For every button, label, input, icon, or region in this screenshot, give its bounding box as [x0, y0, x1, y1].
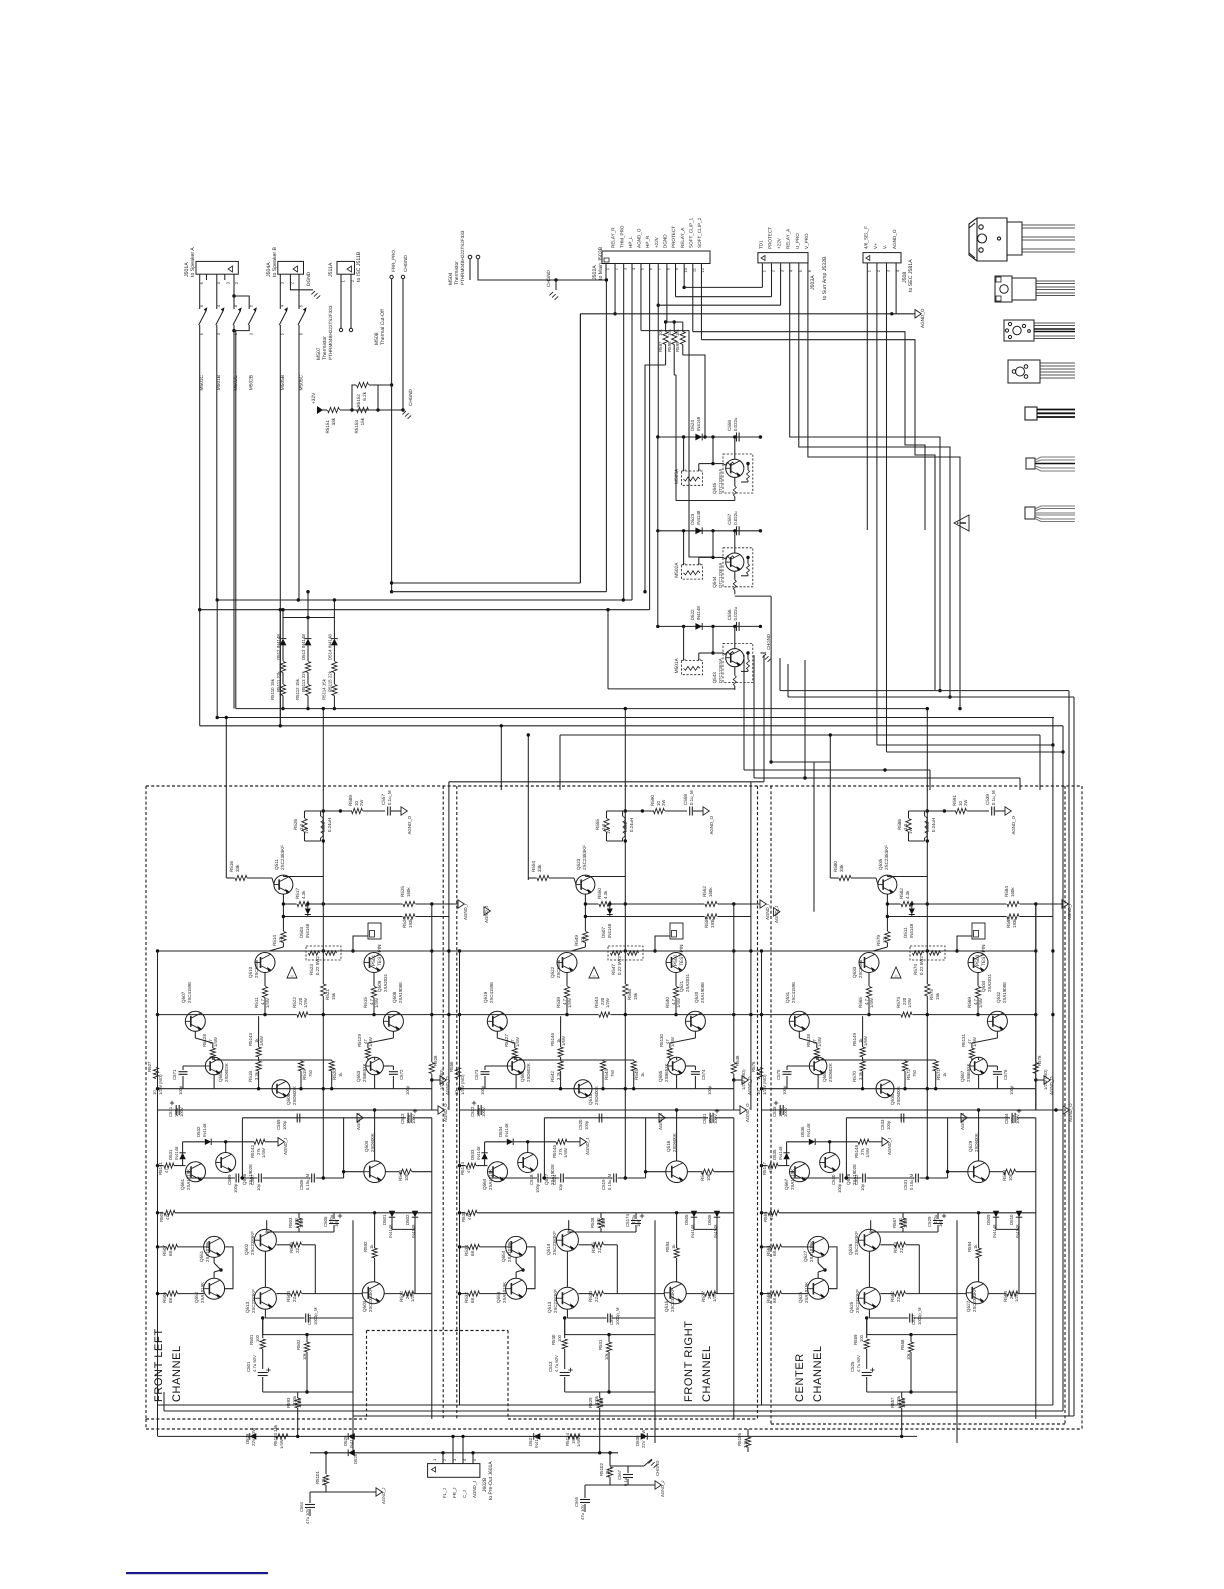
svg-text:C519: C519 [601, 1179, 606, 1190]
svg-text:FRONT RIGHT: FRONT RIGHT [683, 1320, 695, 1402]
svg-text:C505: C505 [323, 1216, 328, 1227]
svg-text:68: 68 [772, 1251, 777, 1256]
lower row wire [948, 1293, 966, 1295]
svg-text:AGND_J: AGND_J [283, 1138, 288, 1155]
diode D532 IN4148 [205, 1139, 211, 1145]
resistor R559 100 [864, 1339, 869, 1349]
svg-text:2SA2031: 2SA2031 [685, 973, 690, 992]
resistor R538 47k [460, 1212, 466, 1214]
package drawing TO-220 [995, 276, 1075, 302]
resistor R502 10k [304, 1342, 309, 1352]
internal resistor base-emitter [747, 557, 749, 563]
Q13 emitter chain [564, 1318, 566, 1338]
net arrow AGND_J mid [961, 1114, 967, 1122]
emitter wire down [584, 894, 586, 931]
svg-text:R514: R514 [272, 935, 277, 946]
capacitor C519 0.15u_M [613, 1174, 615, 1183]
svg-text:HP_R: HP_R [645, 235, 650, 248]
svg-text:AGND_J: AGND_J [472, 1481, 477, 1498]
left rail lower [157, 1247, 159, 1405]
svg-text:R578: R578 [1037, 1055, 1042, 1066]
resistor R542 3.3k [558, 1061, 563, 1071]
capacitor C564 47u 10V [305, 1504, 315, 1506]
resistor R562 22 [880, 1293, 894, 1295]
svg-text:M505A: M505A [674, 468, 680, 484]
svg-text:R5127: R5127 [504, 1034, 509, 1047]
resistor R506 68 [167, 1291, 178, 1296]
ground CHGND on M504 line [554, 278, 557, 281]
svg-text:IN4148: IN4148 [696, 606, 701, 621]
svg-text:1/4W: 1/4W [972, 1037, 977, 1047]
capacitor C501 4.7u 50V [258, 1372, 268, 1374]
svg-text:AGND_I: AGND_I [765, 904, 770, 920]
svg-text:Q516: Q516 [666, 1140, 671, 1152]
net arrow AGND_J bottom left [376, 1488, 382, 1496]
svg-text:R5103 15k: R5103 15k [273, 1424, 278, 1446]
diode row wires [694, 1228, 717, 1230]
bottom section line 2 [310, 1452, 618, 1454]
svg-text:Q564: Q564 [482, 1178, 487, 1190]
svg-text:100p: 100p [405, 1085, 410, 1095]
wire control rail M505A [658, 436, 761, 438]
svg-text:Q584: Q584 [520, 1070, 525, 1082]
svg-text:CENTER: CENTER [794, 1353, 806, 1402]
svg-text:CHANNEL: CHANNEL [171, 1345, 183, 1402]
svg-text:0.15u_M: 0.15u_M [909, 1173, 914, 1190]
svg-text:R5152: R5152 [356, 394, 361, 408]
svg-text:RELAY_A: RELAY_A [786, 228, 791, 249]
resistor R598 10k [672, 332, 677, 345]
input row wires [190, 1177, 235, 1179]
svg-text:AGND_J: AGND_J [660, 1480, 665, 1497]
svg-text:1/2W: 1/2W [303, 998, 308, 1008]
transistor Q527 2SC2383KF [966, 1282, 988, 1304]
capacitor C535 100u 100V [779, 1105, 781, 1115]
relay coil M502A [681, 565, 702, 579]
diode D513 IN4148 [307, 618, 309, 639]
net arrow AGND_J mid [357, 1114, 363, 1122]
svg-text:10: 10 [683, 267, 688, 272]
svg-text:3.3k: 3.3k [254, 1071, 259, 1080]
svg-text:0.15u_M: 0.15u_M [305, 1173, 310, 1190]
svg-text:R575: R575 [929, 989, 934, 1000]
svg-text:Q526: Q526 [848, 1243, 853, 1255]
svg-text:+32V: +32V [311, 392, 317, 404]
Q13 emitter chain [262, 1318, 264, 1338]
svg-text:193k: 193k [710, 918, 715, 928]
svg-text:V_PRO: V_PRO [804, 233, 809, 249]
resistor R539 4.7 1/4W [566, 973, 568, 987]
transistor Q532 2SA1908E [987, 1011, 1007, 1031]
svg-text:10k: 10k [675, 328, 680, 336]
resistor R594 1k [976, 1248, 981, 1258]
svg-text:M501A: M501A [674, 657, 680, 673]
diode D527 IN4148 [534, 1433, 541, 1440]
svg-text:1/2W: 1/2W [712, 1292, 717, 1302]
svg-text:2SC4159E: 2SC4159E [489, 982, 494, 1003]
relay contact M501B [216, 274, 218, 309]
transistor Q552 2SA1019K [204, 1278, 225, 1299]
svg-text:DTC123ESA: DTC123ESA [718, 563, 723, 588]
transistor Q516 2SD600K [666, 1161, 688, 1183]
base link Q51-Q52 [225, 1247, 233, 1262]
svg-text:2SB653K: 2SB653K [664, 1063, 669, 1082]
svg-text:C533: C533 [880, 1119, 885, 1130]
resistor R564 220 1/2W [988, 1293, 1006, 1295]
package drawing 3-lug device [1008, 360, 1075, 383]
svg-text:PTHRM04BH222TS2F333: PTHRM04BH222TS2F333 [328, 305, 333, 360]
svg-text:AGND_O: AGND_O [443, 1103, 448, 1122]
svg-text:D510: D510 [1009, 1214, 1014, 1225]
svg-text:R539: R539 [556, 997, 561, 1008]
wire rail 762 [771, 761, 830, 763]
package drawing connector 3-wire [1026, 457, 1075, 471]
emitter wire down [886, 894, 888, 931]
resistor R521 15k [322, 877, 324, 985]
resistor R527 10 1/2W (MO) [153, 1068, 158, 1079]
resistor R5142 27k 1/4W [254, 1139, 265, 1144]
transistor Q586 2SD602K [809, 1057, 827, 1075]
resistor R504 22 [276, 1293, 290, 1295]
svg-text:1.2k: 1.2k [321, 1477, 326, 1486]
svg-text:M505C: M505C [298, 374, 304, 390]
wire control rail M501A [658, 625, 761, 627]
svg-text:22V 1/2W: 22V 1/2W [251, 1428, 256, 1446]
svg-text:M505B: M505B [280, 375, 286, 390]
svg-text:R543: R543 [604, 1069, 609, 1080]
resistor R5148 27k 1/4W [858, 1139, 869, 1144]
feed wire from top harness [750, 782, 752, 1110]
svg-text:R546: R546 [627, 989, 632, 1000]
svg-text:D528: D528 [245, 1433, 250, 1444]
resistor R5147 47 [762, 1165, 768, 1167]
svg-text:Q545: Q545 [712, 482, 717, 494]
net arrow AGND_I [734, 903, 760, 905]
svg-text:R5142: R5142 [250, 1145, 255, 1158]
output line to AGND_O [623, 810, 654, 812]
svg-text:R560: R560 [766, 1292, 771, 1303]
svg-text:DGND: DGND [662, 234, 667, 248]
svg-text:R511: R511 [254, 997, 259, 1008]
svg-text:22: 22 [597, 1248, 602, 1253]
bottom section line 1 [158, 1435, 917, 1437]
diode D524 IN4148 [695, 434, 702, 441]
svg-text:47: 47 [466, 1168, 471, 1173]
svg-text:D535: D535 [772, 1149, 777, 1160]
resistor R554 33k [528, 877, 536, 879]
resistor R5152 6.2k [352, 385, 356, 410]
svg-text:100p: 100p [707, 1085, 712, 1095]
svg-text:1/4W: 1/4W [901, 1398, 906, 1408]
base link Q51-Q52 [527, 1247, 535, 1262]
svg-text:Q504: Q504 [364, 1140, 369, 1152]
svg-text:R5124: R5124 [565, 1433, 570, 1446]
zener diode D528 22V 1/2W [250, 1433, 257, 1440]
net arrow AGND_J bottom right [655, 1481, 661, 1489]
resistor R518 3.3k [256, 1061, 261, 1071]
resistor R522 220 1/2W [297, 1012, 308, 1017]
svg-text:!: ! [894, 975, 899, 976]
wire J508 V+ down [876, 263, 878, 745]
mid rail wire [544, 1117, 708, 1119]
svg-text:193k: 193k [1012, 918, 1017, 928]
svg-text:3.3k: 3.3k [858, 1071, 863, 1080]
svg-text:R503: R503 [288, 1217, 293, 1228]
wire row R517 [283, 903, 296, 905]
svg-text:100: 100 [557, 1334, 562, 1342]
svg-text:C5174: C5174 [625, 1214, 630, 1227]
svg-text:2SC2383KF: 2SC2383KF [854, 1231, 859, 1255]
capacitor C513 4.7u 50V [560, 1372, 570, 1374]
bias row wire [158, 950, 460, 952]
svg-text:C557: C557 [381, 794, 386, 805]
resistor R543 750 [600, 1061, 605, 1071]
net arrow AGND_J input [830, 1141, 858, 1143]
svg-text:R547: R547 [611, 964, 616, 975]
resistor R5127 47 1/4W [496, 1031, 498, 1038]
svg-text:10: 10 [152, 1090, 157, 1095]
wire J508 V- down [886, 263, 888, 752]
wire pin3 THM_PRO [623, 264, 625, 601]
transistor Q583 2SB653K [366, 1057, 384, 1075]
resistor R565 47k [762, 1212, 768, 1214]
resistor R578 10 1/2W (MO) [1033, 1063, 1038, 1074]
svg-text:1/2W (MO): 1/2W (MO) [460, 1074, 465, 1095]
svg-text:1/4W: 1/4W [865, 1148, 870, 1158]
wire pin7 +22V to relay rail [657, 264, 659, 438]
svg-text:R5112 15k: R5112 15k [295, 678, 300, 700]
connector J511A to ISC J511B [337, 261, 355, 274]
resistor R557 220k 1/4W [899, 1398, 904, 1408]
svg-text:IN4148: IN4148 [909, 923, 914, 938]
svg-text:D532: D532 [196, 1126, 201, 1137]
svg-text:R559: R559 [853, 1334, 858, 1345]
wire pin2 RELAY_R to AGND_O line [614, 264, 616, 314]
svg-text:193k: 193k [408, 918, 413, 928]
svg-text:10k: 10k [278, 935, 283, 943]
resistor R513 100 [385, 1171, 399, 1173]
svg-text:!: ! [290, 975, 295, 976]
svg-text:100V: 100V [783, 1107, 788, 1117]
resistor R535 22 [578, 1244, 592, 1246]
resistor R5129 47 1/4W [392, 1031, 394, 1038]
transistor Q587 2SB653K [970, 1057, 988, 1075]
svg-text:R555: R555 [595, 819, 600, 830]
diode D511 IN4148 row [887, 916, 1006, 918]
svg-text:R583: R583 [1006, 917, 1011, 928]
svg-text:4.7u 50V: 4.7u 50V [554, 1355, 559, 1372]
svg-text:2SA1019K: 2SA1019K [790, 1169, 795, 1190]
svg-text:CHGND: CHGND [408, 388, 413, 406]
diode D534 IN4148 [507, 1139, 513, 1145]
svg-text:C576: C576 [1003, 1069, 1008, 1080]
wire Q02 emitter to Q13 [566, 1251, 568, 1287]
resistor R552 160k [705, 901, 717, 906]
svg-text:1/2W (MO): 1/2W (MO) [762, 1074, 767, 1095]
svg-text:IN4148: IN4148 [690, 1224, 695, 1238]
svg-text:1.2k: 1.2k [605, 1469, 610, 1478]
svg-text:R551: R551 [704, 917, 709, 928]
diode D506 IN4148 [714, 1211, 720, 1217]
diode D501 IN4148 [389, 1211, 395, 1217]
svg-text:D525: D525 [343, 1435, 348, 1446]
svg-text:Q544: Q544 [712, 576, 717, 588]
svg-text:J511A: J511A [328, 262, 334, 277]
svg-text:CHGND: CHGND [766, 634, 771, 650]
svg-text:D522: D522 [690, 609, 695, 620]
wire rail 697 [788, 696, 1074, 698]
relay contact M505B [279, 274, 281, 309]
resistor R548 10 1/2W (MO) [731, 1063, 736, 1074]
svg-text:2SC2383KF: 2SC2383KF [250, 1231, 255, 1255]
svg-text:10p: 10p [860, 1183, 865, 1191]
wire row R550 [585, 903, 598, 905]
svg-text:1/4W: 1/4W [567, 998, 572, 1008]
svg-text:2SA1019K: 2SA1019K [205, 1241, 210, 1262]
capacitor C573 100p [481, 1071, 490, 1073]
transistor Q584 2SD602K [507, 1057, 525, 1075]
svg-text:2SA1908E: 2SA1908E [398, 982, 403, 1003]
resistor R512 220 1/2W [384, 1293, 402, 1295]
svg-text:R518: R518 [248, 1071, 253, 1082]
resistor R519 750 [298, 1061, 303, 1071]
svg-text:R552: R552 [702, 886, 707, 897]
svg-text:68: 68 [470, 1298, 475, 1303]
feed wire from top harness [448, 782, 450, 1110]
right rail [733, 904, 735, 1062]
wire Q04 collector to rail [978, 1110, 980, 1161]
svg-text:IN4148: IN4148 [806, 1123, 811, 1137]
svg-text:C535: C535 [772, 1106, 777, 1117]
resistor R576 10 1/2W (MO) [757, 1068, 762, 1079]
svg-text:Q525: Q525 [849, 1301, 854, 1313]
svg-text:C507: C507 [250, 1174, 255, 1185]
resistor R546 15k [624, 877, 626, 985]
wire Q04 collector to rail [676, 1110, 678, 1161]
resistor R5105 3.3k [745, 1437, 750, 1447]
driver row wire [158, 1014, 297, 1016]
output line to AGND_O [321, 810, 352, 812]
svg-text:R591: R591 [952, 795, 957, 806]
wire Q02 collector [870, 1220, 872, 1231]
svg-text:2SA1019K: 2SA1019K [200, 1282, 205, 1303]
wire rail 781 into channels [449, 781, 764, 783]
svg-text:R524: R524 [402, 917, 407, 928]
svg-text:0.022u: 0.022u [733, 511, 738, 525]
resistor R550 4.3k [599, 901, 611, 906]
transistor Q522 2SC5666 [557, 953, 577, 973]
svg-text:100p: 100p [1009, 1085, 1014, 1095]
transistor Q507 2SC4159E [185, 1011, 205, 1031]
AGND rail across channels [158, 1109, 439, 1111]
resistor R5130 47 1/4W [694, 1031, 696, 1038]
svg-text:TD1: TD1 [758, 240, 763, 249]
resistor R540 4.7 1/4W [675, 973, 677, 987]
resistor R599 10k [680, 332, 685, 345]
wire vertical x242 [543, 1118, 545, 1178]
svg-text:1/6W: 1/6W [863, 1036, 868, 1046]
transistor Q514 2SC2383KF [556, 1229, 578, 1251]
wire rail 770 [744, 769, 930, 771]
transistor Q506 2SD600K [272, 1080, 290, 1098]
svg-text:2SC2383KF: 2SC2383KF [972, 1288, 977, 1312]
svg-text:33k: 33k [537, 864, 542, 872]
svg-text:Q507: Q507 [181, 991, 186, 1003]
svg-text:CHGND: CHGND [546, 269, 551, 287]
svg-text:Q535: Q535 [878, 858, 883, 870]
svg-text:D511: D511 [903, 927, 908, 938]
transistor Q551 2SA1019K [204, 1236, 225, 1257]
resistor R515 4.7 1/4W [373, 973, 375, 987]
svg-text:2SA1019K: 2SA1019K [809, 1241, 814, 1262]
svg-text:1/4W: 1/4W [297, 1398, 302, 1408]
relay contact M505C [298, 274, 300, 309]
svg-text:R515: R515 [363, 997, 368, 1008]
capacitor C565 47u 10V [580, 1499, 590, 1501]
svg-text:0.22 5W2: 0.22 5W2 [617, 956, 622, 975]
svg-text:100p: 100p [584, 1120, 589, 1130]
svg-text:C573: C573 [474, 1069, 479, 1080]
svg-text:Q543: Q543 [712, 672, 717, 684]
svg-text:D505: D505 [684, 1214, 689, 1225]
svg-text:D514 IN4148: D514 IN4148 [327, 634, 332, 660]
svg-text:1/4W: 1/4W [563, 1148, 568, 1158]
svg-text:R567: R567 [892, 1217, 897, 1228]
capacitor C574 100p [691, 1071, 700, 1073]
svg-text:Q513: Q513 [245, 1301, 250, 1313]
svg-text:THM_PRO: THM_PRO [619, 225, 624, 248]
svg-text:Q551: Q551 [199, 1250, 204, 1262]
package drawing connector 3-wire lower [1025, 506, 1075, 522]
capacitor C557 0.1u_M [387, 807, 389, 816]
resistor R508 47k [158, 1212, 164, 1214]
svg-text:47u 10V: 47u 10V [305, 1508, 310, 1524]
diode D535 IN4148 [783, 1153, 789, 1159]
svg-text:100V: 100V [411, 1114, 416, 1124]
transistor Q534 2SA2031 [968, 953, 988, 973]
net arrow AGND_O [1005, 807, 1011, 815]
input pair wires [458, 1164, 461, 1167]
diode D522 IN4148 [695, 623, 702, 630]
svg-text:47u 10V: 47u 10V [580, 1504, 585, 1520]
right rail [431, 904, 433, 1062]
svg-text:100p: 100p [480, 1085, 485, 1095]
svg-text:C522: C522 [470, 1106, 475, 1117]
footer blue line [126, 1572, 268, 1574]
svg-text:2SB653K: 2SB653K [966, 1063, 971, 1082]
resistor R590 10 2W [654, 808, 665, 813]
resistor R567 390 1/4W [900, 1218, 905, 1228]
svg-text:1/4W: 1/4W [903, 1218, 908, 1228]
svg-text:RELAY_A: RELAY_A [680, 227, 685, 248]
wire node [340, 409, 403, 411]
svg-text:R579: R579 [876, 935, 881, 946]
svg-text:C572: C572 [399, 1069, 404, 1080]
svg-text:R594: R594 [967, 1241, 972, 1252]
svg-text:100: 100 [255, 1334, 260, 1342]
svg-text:C532: C532 [854, 1174, 859, 1185]
lower row wire [646, 1293, 664, 1295]
svg-text:R512: R512 [399, 1291, 404, 1302]
svg-text:AGND_I: AGND_I [463, 904, 468, 920]
svg-text:R5143: R5143 [248, 1033, 253, 1046]
net arrow AGND_I [432, 903, 458, 905]
svg-text:Q514: Q514 [546, 1243, 551, 1255]
capacitor C513 100u 100V [407, 1113, 409, 1123]
svg-text:2SA2031: 2SA2031 [383, 973, 388, 992]
svg-text:R568: R568 [1002, 1170, 1007, 1181]
svg-text:C531: C531 [903, 1179, 908, 1190]
